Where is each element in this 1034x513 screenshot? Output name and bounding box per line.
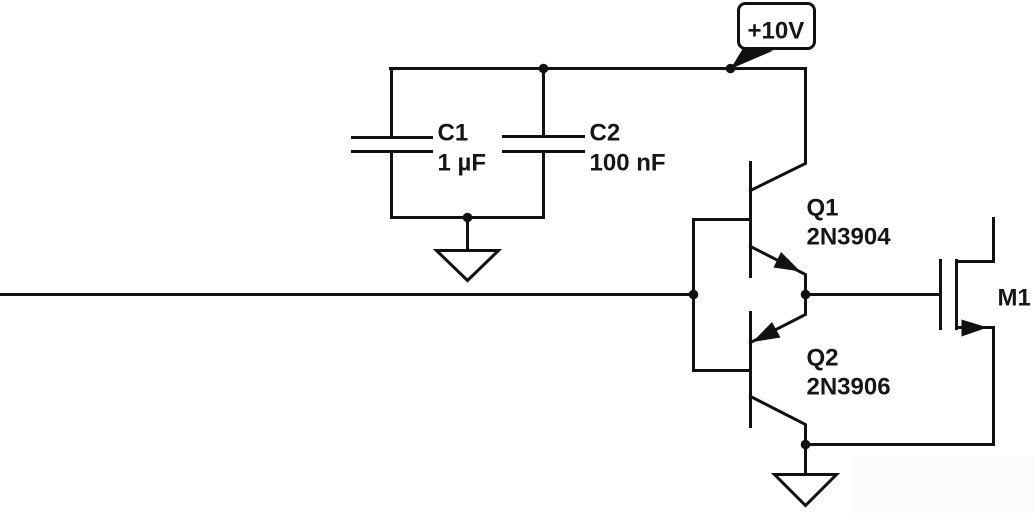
svg-text:M1: M1 [998, 285, 1031, 312]
transistor Q2 emitter arrow [753, 322, 781, 342]
svg-text:Q2: Q2 [807, 345, 839, 372]
junction node cap bottom [463, 213, 473, 223]
mosfet M1 source arrow [962, 320, 988, 337]
junction node input [689, 290, 699, 300]
junction node C2 top [539, 64, 549, 74]
wire Q1 base connect [694, 218, 751, 221]
svg-text:Q1: Q1 [807, 195, 839, 222]
supply flag +10V [731, 48, 774, 70]
mosfet M1 [939, 261, 942, 329]
ground GND1 [466, 218, 469, 251]
wire output to gate [806, 293, 941, 296]
capacitor C2 [542, 69, 545, 137]
wire bottom rail [806, 443, 994, 446]
wire base bus vertical [692, 220, 695, 371]
wire input net (left horizontal) [1, 293, 694, 296]
transistor Q1 emitter arrow [774, 252, 801, 272]
junction node output [801, 290, 811, 300]
svg-text:100 nF: 100 nF [590, 150, 666, 177]
svg-text:C2: C2 [590, 120, 621, 147]
capacitor C1 [390, 69, 393, 138]
transistor Q1 [749, 163, 752, 277]
svg-text:1 µF: 1 µF [438, 150, 487, 177]
svg-text:C1: C1 [438, 120, 469, 147]
junction node supply tap [726, 64, 736, 74]
svg-text:2N3904: 2N3904 [807, 224, 892, 251]
transistor Q2 [749, 313, 752, 427]
svg-text:+10V: +10V [748, 18, 805, 45]
wire capacitor bottom rail [392, 216, 544, 219]
ground GND2 [804, 445, 807, 475]
wire Q2 base connect [694, 369, 751, 372]
svg-text:2N3906: 2N3906 [807, 374, 891, 401]
wire top supply rail [391, 67, 806, 70]
faint shading bottom right [852, 457, 1034, 513]
junction node Q2 collector [801, 440, 811, 450]
